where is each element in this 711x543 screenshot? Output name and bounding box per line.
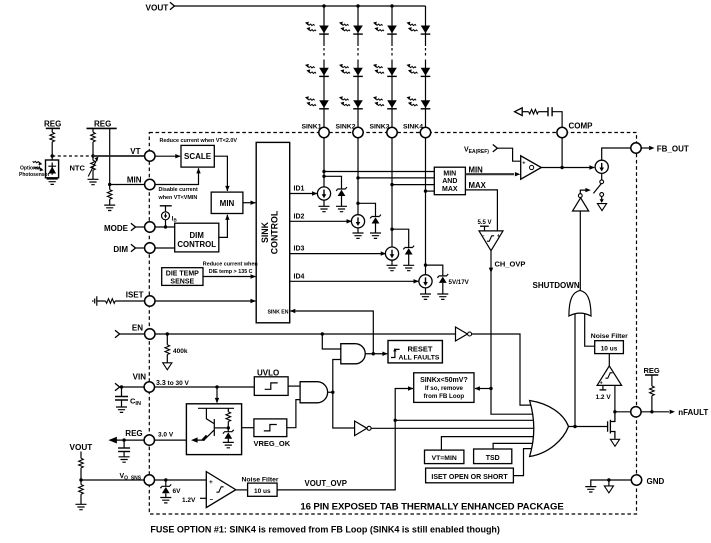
svg-text:when VT<VMIN: when VT<VMIN bbox=[158, 195, 198, 201]
svg-text:5V/17V: 5V/17V bbox=[449, 279, 470, 286]
wire DIE TEMP SENSE to SINK CONTROL bbox=[203, 274, 256, 278]
wire comparator input from nFAULT net bbox=[614, 385, 616, 411]
svg-text:EN: EN bbox=[132, 324, 143, 333]
junction VT node bbox=[91, 154, 94, 157]
svg-text:SENSE: SENSE bbox=[170, 278, 194, 285]
svg-text:16 PIN EXPOSED TAB THERMALLY E: 16 PIN EXPOSED TAB THERMALLY ENHANCED PA… bbox=[300, 502, 564, 513]
pin SINK2 bbox=[335, 123, 363, 137]
svg-text:Reduce current when: Reduce current when bbox=[203, 262, 258, 268]
wire shutdown trunk bbox=[533, 211, 581, 291]
buffer shutdown inverter bbox=[573, 194, 589, 211]
ground below REG cap bbox=[119, 457, 130, 462]
svg-text:REG: REG bbox=[44, 120, 61, 129]
pin ISET bbox=[126, 291, 155, 307]
wire nFAULT external bbox=[641, 408, 708, 417]
svg-text:REG: REG bbox=[125, 429, 142, 438]
wire GND net bbox=[591, 480, 632, 487]
svg-text:Reduce current when VT<2.0V: Reduce current when VT<2.0V bbox=[160, 138, 238, 144]
wire inverter to OR input 4 bbox=[371, 427, 537, 429]
block MIN bbox=[211, 192, 243, 213]
gate AND2 (UVLO and VREG_OK) bbox=[300, 382, 328, 403]
svg-text:SINK1: SINK1 bbox=[301, 123, 321, 130]
resistor nFAULT pull-up to REG bbox=[644, 366, 660, 412]
junction SINK4/zener tap bbox=[424, 263, 427, 266]
junction nFAULT/drain bbox=[613, 410, 616, 413]
op-amp error amplifier bbox=[521, 156, 542, 179]
ground below zener Z2 bbox=[370, 233, 381, 238]
svg-text:1.2 V: 1.2 V bbox=[596, 394, 612, 401]
svg-text:3.0 V: 3.0 V bbox=[158, 432, 174, 439]
comparator nFAULT sense (1.2V) bbox=[597, 366, 622, 386]
wire VEA(REF) to error amp bbox=[497, 148, 520, 161]
svg-text:Optional: Optional bbox=[20, 166, 41, 172]
svg-text:SINK2: SINK2 bbox=[335, 123, 355, 130]
LED D13 bbox=[305, 96, 329, 109]
caption package type bbox=[300, 502, 564, 513]
svg-text:400k: 400k bbox=[173, 348, 188, 355]
pin SINK4 bbox=[403, 123, 431, 137]
junction SINK4/minmax tap bbox=[424, 189, 427, 192]
arrow into RESET ALL FAULTS bbox=[382, 352, 387, 356]
pin DIM bbox=[113, 243, 155, 254]
wire LED string 4 vertical bbox=[425, 6, 427, 275]
wire MIN block to SINK CONTROL bbox=[243, 201, 256, 205]
svg-text:SHUTDOWN: SHUTDOWN bbox=[533, 281, 580, 290]
wire VT pin to SCALE bbox=[155, 154, 181, 158]
junction COMP tap bbox=[560, 166, 563, 169]
wire ID4 control bbox=[290, 273, 419, 283]
note Reduce current when DIE temp &gt; 135 C bbox=[203, 262, 258, 275]
svg-text:Photosensor: Photosensor bbox=[19, 172, 50, 178]
svg-text:MIN: MIN bbox=[220, 199, 235, 208]
wire VREG_OK to AND2 bbox=[287, 400, 300, 428]
junction SINK2/zener tap bbox=[356, 202, 359, 205]
wire nFAULT net bbox=[615, 411, 631, 413]
LED D41 bbox=[407, 22, 431, 34]
ground below zener Z4 bbox=[437, 294, 448, 299]
svg-text:RESET: RESET bbox=[407, 344, 432, 353]
junction AND2 output bbox=[328, 391, 335, 394]
reference triangle below MOSFET bbox=[610, 439, 619, 446]
svg-text:SINKx<50mV?: SINKx<50mV? bbox=[420, 377, 468, 384]
wire LED string 3 vertical bbox=[391, 6, 393, 247]
wire shutdown OR right input bbox=[585, 313, 595, 346]
wire DIM CONTROL to MIN block bbox=[219, 215, 230, 238]
svg-text:REG: REG bbox=[644, 366, 660, 375]
wire VO_SNS to comparator bbox=[155, 479, 207, 481]
note Disable current when VT&lt;VMIN bbox=[158, 187, 198, 201]
pin VIN bbox=[115, 373, 155, 393]
ground below NTC bbox=[88, 179, 99, 184]
svg-text:10 us: 10 us bbox=[254, 488, 271, 495]
current source ID3 sink bbox=[385, 247, 398, 260]
supply REG (NTC/MIN dividers) bbox=[87, 120, 117, 129]
block Noise Filter 10 us (VOUT_OVP) bbox=[242, 476, 279, 496]
resistor sense top bbox=[79, 452, 84, 481]
caption fuse option bbox=[150, 525, 500, 535]
wire COMP net bbox=[552, 112, 562, 168]
resistor RISET bbox=[97, 299, 145, 304]
wire AND1 output node bbox=[365, 353, 387, 355]
reference triangle below switch bbox=[597, 204, 606, 211]
block DIE TEMP SENSE bbox=[162, 268, 203, 286]
svg-text:FUSE OPTION #1: SINK4 is remo: FUSE OPTION #1: SINK4 is removed from FB… bbox=[150, 525, 500, 535]
LED D11 bbox=[305, 22, 329, 34]
svg-text:SCALE: SCALE bbox=[184, 152, 212, 161]
ground below divider bbox=[76, 504, 87, 509]
svg-text:Disable current: Disable current bbox=[159, 187, 198, 193]
pin FB_OUT bbox=[631, 143, 689, 154]
svg-text:ISET: ISET bbox=[126, 291, 144, 300]
wire SINK1 zener branch bbox=[324, 176, 342, 206]
wire LED string 2 vertical bbox=[357, 6, 359, 215]
block U1 SINK CONTROL bbox=[256, 142, 290, 322]
wire MIN pin riser to SCALE bbox=[155, 168, 201, 185]
svg-text:DIE TEMP: DIE TEMP bbox=[166, 271, 199, 278]
IC package boundary (dashed) bbox=[149, 133, 636, 515]
LED D42 bbox=[407, 64, 431, 77]
junction VOUT divider bbox=[79, 478, 82, 481]
junction top rail / SINK1 bbox=[322, 4, 325, 7]
svg-text:REG: REG bbox=[94, 120, 111, 129]
svg-text:10 us: 10 us bbox=[601, 345, 618, 352]
svg-text:Noise Filter: Noise Filter bbox=[242, 476, 279, 483]
wire EN tap to AND gate bbox=[322, 334, 341, 349]
junction OR output/shutdown bbox=[573, 425, 576, 428]
zener clamp Z3 bbox=[403, 246, 414, 255]
junction SINK3/zener tap bbox=[390, 228, 393, 231]
ground below MIN divider bbox=[104, 205, 115, 210]
LED D32 bbox=[373, 64, 397, 77]
wire EN net bbox=[155, 333, 456, 335]
junction SINK1/minmax tap bbox=[322, 170, 325, 173]
current source ID4 sink bbox=[419, 275, 432, 288]
wire SINK EN feedback bbox=[290, 309, 373, 354]
svg-text:TSD: TSD bbox=[486, 455, 500, 462]
wire REG pin to regulator bbox=[155, 439, 187, 441]
junction MODE/IB bbox=[164, 225, 167, 228]
block TSD bbox=[474, 449, 512, 464]
current source ID2 sink bbox=[351, 215, 364, 228]
junction SINK2/minmax tap bbox=[356, 176, 359, 179]
current source FB_OUT bbox=[595, 160, 608, 173]
resistor sense bottom bbox=[79, 480, 84, 504]
current source IB (mode bias) bbox=[160, 206, 178, 227]
svg-text:MODE: MODE bbox=[104, 224, 129, 233]
svg-text:+: + bbox=[522, 161, 525, 167]
wire UVLO to AND2 bbox=[288, 385, 300, 387]
junction GND/reference bbox=[607, 478, 610, 481]
ground below 6V zener bbox=[160, 498, 171, 503]
reference 1.2V bbox=[182, 497, 206, 504]
capacitor CIN bbox=[115, 387, 141, 407]
current source ID1 sink bbox=[317, 187, 330, 200]
wire SINK2 zener branch bbox=[358, 203, 376, 233]
zener clamp Z2 bbox=[370, 215, 381, 224]
svg-text:CONTROL: CONTROL bbox=[177, 240, 216, 249]
svg-text:UVLO: UVLO bbox=[257, 368, 279, 377]
svg-text:CH_OVP: CH_OVP bbox=[495, 259, 526, 268]
wire error amp output bbox=[541, 165, 595, 169]
wire VO_SNS net bbox=[81, 479, 144, 481]
ground below ID2 bbox=[353, 233, 364, 238]
resistor MIN divider bottom bbox=[107, 185, 112, 206]
svg-text:VT=MIN: VT=MIN bbox=[432, 455, 457, 462]
ground below CIN bbox=[116, 407, 127, 412]
LED D43 bbox=[407, 96, 431, 109]
gate AND1 (enable) bbox=[341, 344, 365, 364]
junction VO_SNS/zener bbox=[164, 478, 167, 481]
block VT=MIN bbox=[425, 450, 464, 464]
svg-text:−: − bbox=[482, 234, 485, 240]
pin SINK1 bbox=[301, 123, 329, 137]
wire AND2 output to inverter bbox=[333, 392, 355, 428]
wire SINK2 to MIN-AND-MAX bbox=[358, 177, 434, 179]
pin VT bbox=[130, 147, 155, 161]
comparator VOUT_OVP (1.2V) bbox=[206, 472, 236, 508]
junction VIN/regulator bbox=[215, 385, 218, 388]
block RESET ALL FAULTS bbox=[388, 341, 442, 363]
wire CH_OVP down trunk bbox=[489, 251, 537, 415]
svg-text:VT: VT bbox=[130, 147, 140, 156]
wire VOUT_OVP net bbox=[277, 386, 413, 490]
pin nFAULT bbox=[631, 407, 641, 417]
wire ID2 control bbox=[290, 213, 352, 223]
transistor open-drain MOSFET bbox=[608, 412, 615, 439]
wire noise filter to comparator bbox=[608, 354, 610, 366]
ground (sideways) at ISET bbox=[93, 296, 97, 306]
ground below ID4 bbox=[420, 294, 431, 299]
terminal arrow COMP RC bbox=[515, 108, 523, 116]
wire ID3 control bbox=[290, 246, 386, 256]
wire switch control bbox=[580, 188, 591, 194]
block MIN AND MAX bbox=[434, 167, 465, 195]
wire SINK3 zener branch bbox=[392, 229, 409, 265]
svg-text:VOUT: VOUT bbox=[146, 4, 169, 13]
wire ID1 control bbox=[290, 186, 318, 196]
svg-text:VOUT: VOUT bbox=[70, 443, 93, 452]
svg-text:GND: GND bbox=[647, 477, 665, 486]
block SINKx&lt;50mV bbox=[414, 373, 474, 403]
ground at GND pin bbox=[585, 487, 596, 492]
wire SINK4 zener branch bbox=[426, 265, 443, 294]
block ISET OPEN OR SHORT bbox=[426, 468, 514, 483]
svg-text:FB_OUT: FB_OUT bbox=[657, 145, 689, 154]
zener clamp Z4 bbox=[437, 274, 448, 283]
block UVLO bbox=[254, 368, 288, 395]
svg-text:VIN: VIN bbox=[133, 373, 147, 382]
wire ISET to SINK CONTROL bbox=[155, 299, 256, 303]
ground below zener Z3 bbox=[403, 265, 414, 270]
svg-text:ID1: ID1 bbox=[294, 186, 305, 193]
wire EN buffer to OR input 1 bbox=[472, 334, 537, 405]
pin MIN bbox=[127, 176, 155, 190]
svg-text:ID3: ID3 bbox=[294, 246, 305, 253]
LED D22 bbox=[339, 64, 363, 77]
svg-text:DIM: DIM bbox=[113, 245, 128, 254]
svg-text:IB: IB bbox=[172, 217, 178, 223]
junction CH_OVP/SINKx tap bbox=[489, 387, 492, 390]
note Reduce current when VT&lt;2.0V bbox=[160, 138, 238, 144]
resistor photosensor pull-up bbox=[50, 128, 55, 156]
junction EN/AND tap bbox=[321, 332, 324, 335]
gate OR fault summary bbox=[530, 401, 569, 457]
wire ID3 source to ground bbox=[391, 260, 393, 265]
wire MODE to DIM CONTROL bbox=[155, 226, 175, 228]
svg-text:AND: AND bbox=[442, 178, 457, 185]
LED D12 bbox=[305, 64, 329, 77]
inverter EN buffer bbox=[456, 327, 472, 341]
svg-text:ISET OPEN OR SHORT: ISET OPEN OR SHORT bbox=[431, 474, 508, 481]
svg-text:ALL FAULTS: ALL FAULTS bbox=[399, 355, 440, 362]
junction top rail / SINK3 bbox=[390, 4, 393, 7]
svg-text:VOUT_OVP: VOUT_OVP bbox=[305, 479, 347, 488]
resistor 400k pulldown bbox=[165, 334, 188, 363]
svg-text:Noise Filter: Noise Filter bbox=[591, 333, 628, 340]
junction VOUT_OVP/OR tap bbox=[394, 419, 397, 422]
svg-text:from FB Loop: from FB Loop bbox=[424, 393, 465, 400]
junction top rail / SINK2 bbox=[356, 4, 359, 7]
block bandgap regulator bbox=[186, 404, 241, 455]
LED D21 bbox=[339, 22, 363, 34]
wire MAX to CH_OVP comparator bbox=[465, 181, 497, 231]
comparator CH_OVP (5.5V) bbox=[478, 220, 526, 268]
wire DIM to DIM CONTROL bbox=[155, 247, 175, 249]
wire regulator to VREG_OK bbox=[242, 427, 254, 429]
pin MODE bbox=[104, 222, 155, 233]
svg-text:If so, remove: If so, remove bbox=[425, 385, 464, 392]
resistor COMP bbox=[522, 109, 548, 114]
wire comparator to noise filter bbox=[236, 489, 248, 491]
block VREG_OK bbox=[254, 419, 291, 448]
svg-text:ID2: ID2 bbox=[294, 213, 305, 220]
svg-text:+: + bbox=[209, 479, 213, 486]
capacitor COMP bbox=[548, 107, 552, 116]
ground below ID1 bbox=[319, 206, 330, 211]
wire VIN net bbox=[155, 386, 255, 388]
svg-text:1.2V: 1.2V bbox=[182, 497, 196, 504]
wire SINK1 to MIN-AND-MAX bbox=[324, 171, 434, 173]
wire MIN divider drop bbox=[109, 128, 111, 184]
wire VOUT_OVP to OR input 3 bbox=[395, 419, 537, 421]
ground arrow below 400k bbox=[163, 363, 172, 370]
wire AND2 output to AND1 bbox=[333, 360, 341, 393]
wire MIN net to pin bbox=[110, 184, 145, 186]
junction nFAULT/pullup bbox=[650, 410, 653, 413]
value label 5V/17V bbox=[449, 279, 470, 286]
thermistor NTC bbox=[70, 156, 99, 179]
junction MIN node bbox=[108, 183, 111, 186]
wire ID4 source to ground bbox=[425, 288, 427, 294]
wire TSD to OR input 6 bbox=[493, 443, 537, 449]
junction VIN/CIN bbox=[120, 385, 123, 388]
switch FB enable bbox=[593, 173, 603, 203]
LED D33 bbox=[373, 96, 397, 109]
svg-text:MAX: MAX bbox=[469, 181, 487, 190]
svg-text:SINK4: SINK4 bbox=[403, 123, 423, 130]
wire optional dashed link to VT divider bbox=[52, 155, 93, 157]
ground below ID3 bbox=[387, 265, 398, 270]
wire ID2 source to ground bbox=[357, 228, 359, 233]
svg-text:−: − bbox=[210, 497, 214, 504]
LED D23 bbox=[339, 96, 363, 109]
svg-text:VREG_OK: VREG_OK bbox=[254, 439, 291, 448]
pin REG bbox=[125, 429, 174, 445]
zener 6V clamp bbox=[160, 480, 181, 498]
wire REG output left bbox=[108, 437, 144, 444]
photosensor PD1 (optional) bbox=[33, 156, 59, 179]
wire ID1 source to ground bbox=[323, 200, 325, 206]
svg-text:6V: 6V bbox=[173, 488, 182, 495]
wire SINK3 to MIN-AND-MAX bbox=[392, 184, 434, 186]
wire VT=MIN to OR input 5 bbox=[441, 437, 537, 451]
svg-text:MIN: MIN bbox=[469, 166, 484, 175]
wire OR output to MOSFET gate bbox=[569, 426, 608, 428]
node VEA(REF) bbox=[464, 145, 497, 155]
svg-text:NTC: NTC bbox=[70, 164, 86, 173]
label 3.3 to 30 V bbox=[156, 380, 190, 387]
svg-text:+: + bbox=[497, 234, 500, 240]
block DIM CONTROL bbox=[175, 223, 219, 252]
supply REG (photosensor pull-up) bbox=[44, 120, 61, 129]
junction SINK1/zener tap bbox=[322, 175, 325, 178]
node VOUT (sense divider) bbox=[70, 443, 93, 452]
svg-text:3.3 to 30 V: 3.3 to 30 V bbox=[156, 380, 190, 387]
inverter power-not-ok bbox=[355, 421, 372, 436]
node VOUT (top LED supply) bbox=[146, 2, 175, 12]
svg-text:MIN: MIN bbox=[443, 170, 456, 177]
wire CH_OVP to SINKx box bbox=[475, 386, 492, 390]
junction SINK3/minmax tap bbox=[390, 183, 393, 186]
wire VIN into regulator bbox=[215, 387, 219, 403]
reference 1.2 V bbox=[596, 385, 612, 401]
wire ISET OPEN to OR input 7 bbox=[513, 449, 534, 476]
gate OR shutdown bbox=[569, 290, 591, 316]
svg-text:SINK EN: SINK EN bbox=[267, 310, 288, 316]
junction photosensor node bbox=[51, 154, 54, 157]
junction EN/400k bbox=[166, 332, 169, 335]
reference triangle at GND bbox=[604, 480, 613, 493]
wire SINK4 to MIN-AND-MAX bbox=[426, 190, 435, 192]
wire VOUT top rail bbox=[175, 5, 426, 7]
svg-text:DIM: DIM bbox=[190, 231, 204, 240]
wire shutdown OR left input bbox=[574, 313, 576, 427]
svg-text:ID4: ID4 bbox=[294, 273, 305, 280]
svg-text:CONTROL: CONTROL bbox=[270, 210, 280, 254]
svg-text:MIN: MIN bbox=[127, 176, 142, 185]
pin GND bbox=[631, 475, 664, 486]
wire SCALE to MIN block bbox=[214, 156, 229, 191]
junction REG/cap bbox=[122, 438, 125, 441]
ground below zener Z1 bbox=[336, 206, 347, 211]
LED D31 bbox=[373, 22, 397, 34]
capacitor REG bypass bbox=[118, 440, 130, 457]
svg-text:MAX: MAX bbox=[442, 186, 458, 193]
block SCALE bbox=[181, 145, 214, 167]
pin VO_SNS bbox=[120, 473, 155, 485]
wire MIN (bold) to error amp bbox=[465, 166, 520, 177]
ground below photosensor bbox=[47, 179, 58, 184]
pin SINK3 bbox=[369, 123, 397, 137]
pin COMP bbox=[557, 122, 593, 138]
svg-text:DIE temp > 135 C: DIE temp > 135 C bbox=[209, 269, 253, 275]
zener clamp Z1 bbox=[336, 187, 347, 196]
wire FB_OUT net bbox=[602, 148, 631, 160]
resistor NTC top bbox=[91, 128, 96, 156]
svg-text:SINK: SINK bbox=[260, 221, 270, 243]
svg-text:nFAULT: nFAULT bbox=[678, 408, 708, 417]
svg-text:5.5 V: 5.5 V bbox=[478, 220, 492, 226]
